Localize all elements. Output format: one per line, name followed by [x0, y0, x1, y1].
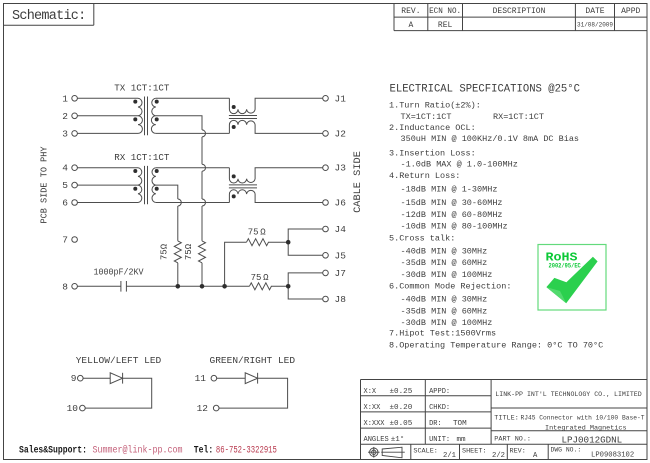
- junction R1 common: [176, 284, 181, 289]
- svg-text:2002/95/EC: 2002/95/EC: [549, 263, 582, 270]
- svg-text:-35dB MIN @ 60MHz: -35dB MIN @ 60MHz: [401, 306, 488, 316]
- transformer T1 TX primary winding: [138, 98, 142, 133]
- wire pin1 to T1 primary: [77, 97, 138, 99]
- wire C1 to common node: [126, 285, 249, 287]
- svg-text:A: A: [533, 452, 538, 460]
- svg-text:X:X: X:X: [364, 388, 377, 396]
- svg-text:J6: J6: [335, 198, 347, 209]
- connector J1: [323, 96, 329, 102]
- hop T1 tap over y133.4: [202, 130, 206, 137]
- svg-text:J7: J7: [335, 268, 346, 279]
- FOOTER: [19, 445, 277, 456]
- SCHEMATIC-CORE: [72, 96, 329, 411]
- svg-text:CHKD:: CHKD:: [429, 404, 450, 412]
- junction J4/J5: [286, 240, 291, 245]
- choke CM2 core: [229, 184, 257, 186]
- connector J5: [323, 253, 329, 259]
- svg-text:±1°: ±1°: [391, 435, 405, 444]
- wire pin5 to T2 primary tap: [77, 184, 138, 186]
- dot T1 primary polarity top: [133, 100, 137, 104]
- wire pin6 to T2 primary: [77, 202, 138, 204]
- svg-text:-35dB MIN @ 60MHz: -35dB MIN @ 60MHz: [401, 258, 488, 268]
- svg-text:Schematic:: Schematic:: [12, 9, 86, 24]
- svg-text:J2: J2: [335, 128, 347, 139]
- connector J4: [323, 226, 329, 232]
- svg-text:LP09083102: LP09083102: [591, 451, 634, 459]
- connector J3: [323, 165, 329, 171]
- svg-text:DESCRIPTION: DESCRIPTION: [493, 7, 546, 16]
- pin 4: [72, 165, 78, 171]
- dot T1 secondary polarity top: [155, 100, 159, 104]
- dot T1 secondary polarity bottom: [155, 117, 159, 121]
- resistor R1 75ohm vertical: [174, 241, 181, 263]
- connector J7: [323, 270, 329, 276]
- svg-text:-40dB MIN @ 30MHz: -40dB MIN @ 30MHz: [401, 246, 488, 256]
- svg-text:APPD:: APPD:: [429, 388, 450, 396]
- svg-text:3: 3: [62, 128, 68, 139]
- svg-text:-30dB MIN @ 100MHz: -30dB MIN @ 100MHz: [401, 270, 493, 280]
- RoHS logo: [538, 245, 606, 311]
- svg-text:350uH MIN @ 100KHz/0.1V 8mA DC: 350uH MIN @ 100KHz/0.1V 8mA DC Bias: [401, 134, 580, 144]
- svg-text:75Ω: 75Ω: [184, 243, 194, 260]
- wire D1 to pin10: [85, 378, 152, 408]
- svg-text:5: 5: [62, 180, 68, 191]
- svg-text:Sales&Support:: Sales&Support:: [19, 445, 87, 456]
- transformer T1 core: [144, 97, 146, 136]
- svg-text:APPD: APPD: [621, 7, 640, 16]
- dot T2 primary polarity bottom: [133, 187, 137, 191]
- LED D1 triangle: [110, 373, 122, 384]
- svg-text:TOM: TOM: [453, 420, 467, 428]
- svg-text:DR:: DR:: [429, 420, 442, 428]
- junction riser common: [222, 284, 227, 289]
- svg-text:PCB SIDE TO PHY: PCB SIDE TO PHY: [39, 146, 50, 223]
- wire R2 to common node: [201, 263, 203, 286]
- svg-text:A: A: [408, 21, 413, 30]
- svg-text:TITLE:: TITLE:: [494, 415, 518, 423]
- svg-text:RX=1CT:1CT: RX=1CT:1CT: [493, 112, 544, 122]
- transformer T2 core: [144, 166, 146, 204]
- wire T1 secondary bottom to choke CM1 (hop at x202): [156, 132, 230, 134]
- pin 11: [211, 375, 217, 381]
- svg-text:LINK-PP INT'L TECHNOLOGY CO.,: LINK-PP INT'L TECHNOLOGY CO., LIMITED: [495, 391, 641, 398]
- connector J2: [323, 131, 329, 137]
- connector J6: [323, 200, 329, 206]
- pin 3: [72, 131, 78, 137]
- svg-text:TX 1CT:1CT: TX 1CT:1CT: [114, 83, 170, 94]
- svg-text:2.Inductance OCL:: 2.Inductance OCL:: [389, 123, 476, 133]
- LED D1 wire from pin9: [83, 377, 110, 379]
- svg-text:11: 11: [195, 373, 207, 384]
- capacitor C1 plates: [120, 281, 122, 292]
- pin 12: [213, 405, 219, 411]
- wire junction to J8: [288, 286, 323, 299]
- pin 7: [72, 237, 78, 243]
- hop T1 tap over y167.7: [202, 164, 206, 171]
- svg-text:9: 9: [71, 373, 77, 384]
- dot T2 secondary polarity top: [155, 169, 159, 173]
- svg-text:2/1: 2/1: [443, 452, 456, 460]
- svg-text:PART NO.:: PART NO.:: [494, 435, 531, 443]
- schematic title box: [4, 4, 94, 26]
- junction J7/J8: [286, 284, 291, 289]
- svg-text:TX=1CT:1CT: TX=1CT:1CT: [401, 112, 452, 122]
- spec text block: [389, 84, 603, 351]
- svg-text:8.Operating Temperature Range:: 8.Operating Temperature Range: 0°C TO 70…: [389, 340, 603, 350]
- svg-text:4: 4: [62, 163, 68, 174]
- svg-text:Tel:: Tel:: [194, 445, 213, 456]
- svg-text:-40dB MIN @ 30MHz: -40dB MIN @ 30MHz: [401, 295, 488, 305]
- wire T1 center tap down to R2 with hops: [156, 116, 202, 241]
- wire pin2 to T1 primary tap: [77, 115, 138, 117]
- pin 9: [78, 375, 84, 381]
- LED D2 cathode bar: [257, 373, 259, 384]
- svg-text:1000pF/2KV: 1000pF/2KV: [94, 266, 144, 277]
- svg-text:SHEET:: SHEET:: [462, 448, 486, 456]
- wire T1 secondary top to choke CM1: [156, 97, 230, 99]
- svg-text:4.Return Loss:: 4.Return Loss:: [389, 171, 460, 181]
- svg-text:6: 6: [62, 198, 68, 209]
- wire D2 to pin12: [219, 378, 288, 408]
- dot CM2 bottom polarity: [232, 194, 236, 198]
- connector J8: [323, 296, 329, 302]
- svg-text:UNIT:: UNIT:: [429, 436, 450, 444]
- svg-text:DWG NO.:: DWG NO.:: [551, 447, 582, 454]
- LED D2 wire from pin11: [217, 377, 246, 379]
- svg-text:10: 10: [67, 403, 79, 414]
- junction R2 common: [200, 284, 205, 289]
- resistor R4 75ohm horizontal on common wire: [249, 283, 271, 290]
- LED D2 triangle: [245, 373, 257, 384]
- svg-text:75 Ω: 75 Ω: [248, 228, 267, 238]
- dot T1 primary polarity bottom: [133, 117, 137, 121]
- svg-text:RX 1CT:1CT: RX 1CT:1CT: [114, 152, 170, 163]
- svg-text:-12dB MIN @ 60-80MHz: -12dB MIN @ 60-80MHz: [401, 210, 503, 220]
- wire T2 center tap down to R1 with hop: [156, 185, 178, 241]
- svg-text:-18dB MIN @ 1-30MHz: -18dB MIN @ 1-30MHz: [401, 185, 498, 195]
- svg-text:ANGLES: ANGLES: [364, 436, 389, 444]
- svg-text:DATE: DATE: [585, 7, 604, 16]
- svg-text:7.Hipot Test:1500Vrms: 7.Hipot Test:1500Vrms: [389, 329, 496, 339]
- svg-text:±0.25: ±0.25: [390, 388, 413, 396]
- svg-text:GREEN/RIGHT LED: GREEN/RIGHT LED: [210, 355, 296, 366]
- pin 8: [72, 284, 78, 290]
- wire junction to J7: [288, 273, 323, 286]
- projection symbol: [368, 447, 405, 458]
- svg-text:75 Ω: 75 Ω: [251, 273, 270, 283]
- dot CM1 top polarity: [232, 105, 236, 109]
- pin 2: [72, 113, 78, 119]
- choke CM1 core: [229, 115, 257, 117]
- wire T2 secondary top to choke CM2: [156, 167, 230, 169]
- svg-text:-30dB MIN @ 100MHz: -30dB MIN @ 100MHz: [401, 318, 493, 328]
- transformer T2 RX primary winding: [138, 168, 142, 203]
- svg-text:RJ45 Connector with 10/100 Bas: RJ45 Connector with 10/100 Base-T: [521, 415, 645, 423]
- svg-text:6.Common Mode Rejection:: 6.Common Mode Rejection:: [389, 282, 511, 292]
- revision table: [394, 4, 647, 31]
- svg-text:75Ω: 75Ω: [160, 243, 170, 260]
- svg-text:X:XXX: X:XXX: [364, 420, 386, 428]
- svg-text:±0.05: ±0.05: [390, 420, 413, 428]
- svg-text:5.Cross talk:: 5.Cross talk:: [389, 234, 455, 244]
- svg-text:LPJ0012GDNL: LPJ0012GDNL: [562, 434, 623, 445]
- choke CM2 top winding: [229, 168, 322, 183]
- svg-text:J4: J4: [335, 224, 347, 235]
- wire R1 to common node: [177, 263, 179, 286]
- resistor R3 75ohm horizontal: [247, 239, 269, 246]
- svg-text:J1: J1: [335, 93, 347, 104]
- wire riser to R3: [225, 242, 247, 286]
- svg-text:ELECTRICAL SPECFICATIONS @25°C: ELECTRICAL SPECFICATIONS @25°C: [390, 84, 581, 96]
- choke CM1 bottom winding: [229, 120, 322, 133]
- pin 1: [72, 96, 78, 102]
- choke CM1 top winding: [229, 98, 322, 113]
- hop T1 tap over y202.5: [202, 199, 206, 206]
- svg-text:CABLE SIDE: CABLE SIDE: [352, 151, 364, 213]
- svg-text:3.Insertion Loss:: 3.Insertion Loss:: [389, 148, 476, 158]
- transformer T2 secondary winding: [152, 168, 156, 203]
- dot T2 secondary polarity bottom: [155, 187, 159, 191]
- svg-text:86-752-3322915: 86-752-3322915: [216, 445, 277, 456]
- dot CM2 top polarity: [232, 174, 236, 178]
- wire R3 to J4/J5 junction: [268, 241, 288, 243]
- dot CM1 bottom polarity: [232, 125, 236, 129]
- svg-text:mm: mm: [457, 436, 467, 444]
- wire R4 to J7/J8 junction: [271, 285, 288, 287]
- wire pin4 to T2 primary: [77, 167, 138, 169]
- svg-text:Integrated Magnetics: Integrated Magnetics: [545, 425, 627, 433]
- TITLE-BLOCK: [361, 380, 648, 460]
- svg-text:REV.: REV.: [401, 7, 420, 16]
- hop T2 tap over y202.5: [178, 199, 182, 206]
- capacitor C1 wire from pin8: [77, 285, 121, 287]
- svg-text:YELLOW/LEFT LED: YELLOW/LEFT LED: [76, 355, 162, 366]
- svg-text:J3: J3: [335, 163, 347, 174]
- svg-text:REV:: REV:: [510, 448, 526, 456]
- LED D1 cathode bar: [122, 373, 124, 384]
- svg-text:8: 8: [62, 281, 68, 292]
- svg-text:SCALE:: SCALE:: [413, 448, 437, 456]
- svg-text:J8: J8: [335, 294, 347, 305]
- svg-text:7: 7: [62, 235, 68, 246]
- svg-text:REL: REL: [438, 21, 453, 30]
- wire T2 secondary bottom to choke CM2: [156, 202, 230, 204]
- svg-text:X:XX: X:XX: [364, 404, 382, 412]
- svg-text:2/2: 2/2: [492, 452, 505, 460]
- dot T2 primary polarity top: [133, 169, 137, 173]
- svg-text:12: 12: [197, 403, 209, 414]
- svg-text:ECN NO.: ECN NO.: [429, 7, 461, 16]
- transformer T1 secondary winding: [151, 98, 155, 133]
- wire junction to J4: [288, 229, 323, 242]
- svg-text:-1.0dB MAX @ 1.0-100MHz: -1.0dB MAX @ 1.0-100MHz: [401, 159, 518, 169]
- svg-text:31/08/2009: 31/08/2009: [577, 21, 613, 28]
- svg-text:1: 1: [62, 93, 68, 104]
- wire pin3 to T1 primary: [77, 132, 138, 134]
- svg-text:Summer@link-pp.com: Summer@link-pp.com: [93, 445, 183, 456]
- pin 6: [72, 200, 78, 206]
- svg-text:±0.20: ±0.20: [390, 404, 413, 412]
- wire junction to J5: [288, 242, 323, 255]
- svg-text:2: 2: [62, 111, 68, 122]
- choke CM2 bottom winding: [229, 190, 322, 203]
- resistor R2 75ohm vertical: [199, 241, 206, 263]
- svg-text:1.Turn Ratio(±2%):: 1.Turn Ratio(±2%):: [389, 101, 481, 111]
- svg-text:J5: J5: [335, 250, 347, 261]
- pin 10: [80, 405, 86, 411]
- pin 5: [72, 182, 78, 188]
- svg-text:-15dB MIN @ 30-60MHz: -15dB MIN @ 30-60MHz: [401, 198, 503, 208]
- svg-text:-10dB MIN @ 80-100MHz: -10dB MIN @ 80-100MHz: [401, 222, 508, 232]
